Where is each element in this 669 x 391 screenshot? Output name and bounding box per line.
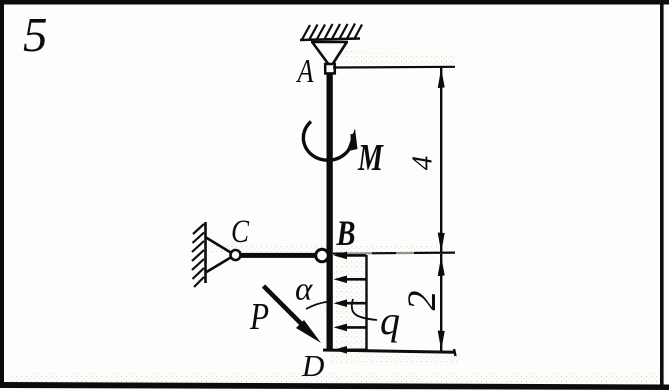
svg-text:D: D (301, 348, 324, 383)
svg-text:q: q (380, 298, 400, 343)
svg-text:M: M (357, 137, 384, 179)
load arrow 3 (334, 299, 367, 307)
dim arrow up at B (438, 256, 445, 276)
pin support triangle at C (206, 238, 232, 273)
dim arrow up at A (438, 68, 445, 88)
tick line at A level (333, 66, 455, 69)
pin square at A (325, 64, 335, 73)
svg-text:2: 2 (399, 291, 444, 311)
pin circle at C (231, 250, 241, 260)
stipple wedge above C bar (208, 244, 440, 252)
pin support triangle at A (311, 42, 348, 64)
frame right border (660, 0, 664, 390)
beam A-D (vertical) (327, 71, 333, 351)
dim arrow down at B (438, 233, 445, 253)
force P arrowhead (296, 320, 321, 343)
wall hatching (192, 224, 204, 287)
stipple inside load box (334, 256, 365, 349)
angle arc (306, 302, 329, 310)
svg-text:5: 5 (23, 7, 48, 62)
frame top border (0, 0, 669, 5)
dimension line B-D (440, 254, 442, 352)
tick line at B level (333, 253, 455, 254)
stipple band above A tick (340, 50, 455, 66)
ceiling line of support A (300, 39, 360, 41)
svg-text:B: B (336, 213, 356, 253)
svg-text:α: α (295, 272, 313, 308)
wall line at C (204, 222, 207, 283)
svg-text:P: P (249, 296, 269, 338)
link bar C-B (238, 253, 320, 258)
load arrow 4 (334, 324, 367, 332)
distributed load line q (365, 255, 367, 350)
force P arrow shaft (264, 286, 307, 329)
dimension line A-B (440, 68, 442, 253)
load arrow 2 (334, 276, 367, 284)
svg-text:4: 4 (407, 156, 439, 171)
stipple band above bottom border (10, 373, 660, 383)
ceiling hatching (302, 24, 362, 40)
moment arrowhead (347, 129, 358, 152)
frame bottom border (0, 382, 669, 390)
D line (bottom tick) (323, 350, 455, 352)
dim arrow down at D (438, 331, 445, 351)
pin circle at B (316, 249, 329, 262)
stipple below D line (330, 353, 460, 364)
svg-text:C: C (231, 214, 250, 250)
q leader curve (352, 299, 377, 320)
load arrow 1 (334, 252, 367, 260)
svg-text:A: A (296, 53, 314, 90)
moment arc M (303, 122, 352, 161)
load arrow 5 (334, 346, 367, 354)
frame left border (0, 0, 4, 388)
